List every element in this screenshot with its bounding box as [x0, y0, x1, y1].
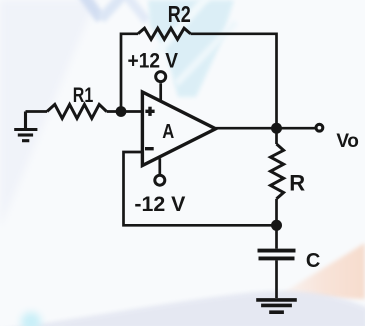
ground (output side) — [256, 300, 297, 312]
resistor R1 — [47, 104, 107, 118]
pin − (inverting input) — [145, 147, 154, 150]
wire from ground to R1 — [26, 110, 48, 113]
-12 V supply terminal — [155, 158, 165, 185]
ground (input side) — [14, 112, 37, 141]
node: R/C junction — [271, 220, 282, 231]
resistor R (vertical) with leads — [271, 128, 284, 225]
svg-text:Vo: Vo — [336, 131, 358, 152]
svg-text:C: C — [306, 250, 320, 272]
wire from R1 to op-amp + input — [107, 110, 143, 113]
svg-text:-12 V: -12 V — [134, 193, 185, 216]
svg-text:A: A — [162, 121, 174, 143]
svg-text:R1: R1 — [73, 84, 94, 107]
wire from inverting input down and across to R/C node — [124, 152, 277, 225]
+12 V supply terminal — [156, 72, 166, 102]
node: junction of R1, R2 and + input — [116, 106, 127, 117]
svg-text:+12 V: +12 V — [128, 50, 179, 73]
node: output junction — [271, 123, 282, 134]
svg-text:R2: R2 — [168, 1, 191, 27]
wire from R1/+ node up to R2 left end — [121, 34, 138, 112]
op-amp A — [142, 92, 215, 166]
terminal Vo (open circle) — [316, 124, 323, 131]
capacitor C — [258, 225, 296, 298]
svg-text:R: R — [289, 171, 305, 196]
pin + (non-inverting input) — [145, 107, 154, 116]
wire from op-amp output to Vo terminal — [216, 127, 316, 130]
resistor R2 — [138, 28, 191, 39]
wire from R2 right end to output node — [191, 34, 277, 128]
